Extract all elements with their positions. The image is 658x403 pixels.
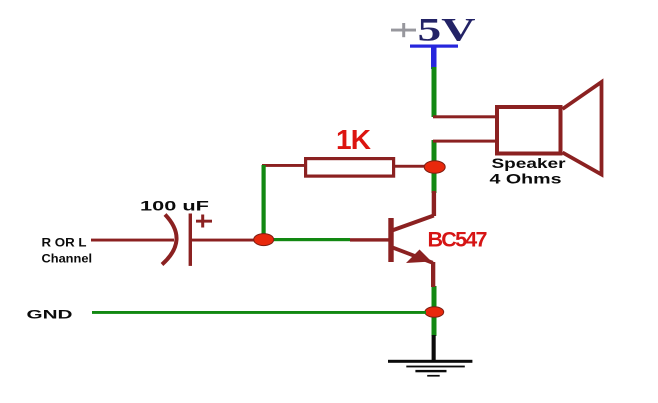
svg-text:GND: GND bbox=[27, 307, 74, 321]
svg-text:Speaker: Speaker bbox=[492, 155, 567, 171]
svg-text:Channel: Channel bbox=[42, 252, 93, 266]
svg-text:100 uF: 100 uF bbox=[140, 198, 210, 214]
svg-text:4 Ohms: 4 Ohms bbox=[490, 171, 562, 187]
svg-text:BC547: BC547 bbox=[428, 228, 488, 252]
svg-text:1K: 1K bbox=[336, 124, 371, 155]
svg-text:5V: 5V bbox=[418, 13, 476, 49]
svg-text:R OR L: R OR L bbox=[42, 235, 87, 249]
